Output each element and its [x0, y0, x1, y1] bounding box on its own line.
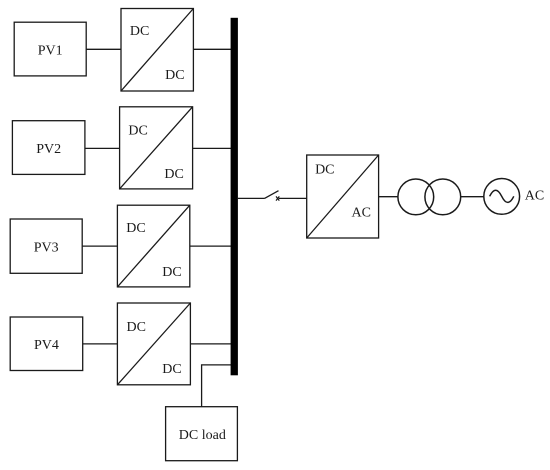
svg-text:DC: DC — [128, 124, 147, 139]
svg-text:DC: DC — [130, 24, 149, 39]
svg-text:DC: DC — [126, 320, 145, 335]
svg-text:PV1: PV1 — [38, 43, 63, 58]
svg-text:AC: AC — [525, 189, 544, 204]
svg-text:DC: DC — [126, 221, 145, 236]
svg-text:DC: DC — [162, 362, 181, 377]
svg-text:PV2: PV2 — [36, 142, 61, 157]
svg-text:DC load: DC load — [179, 428, 226, 443]
svg-text:DC: DC — [162, 265, 181, 280]
svg-text:PV3: PV3 — [34, 241, 59, 256]
svg-text:DC: DC — [164, 167, 183, 182]
svg-text:DC: DC — [165, 68, 184, 83]
svg-text:AC: AC — [351, 205, 370, 220]
svg-text:DC: DC — [315, 162, 334, 177]
svg-text:PV4: PV4 — [34, 338, 59, 353]
